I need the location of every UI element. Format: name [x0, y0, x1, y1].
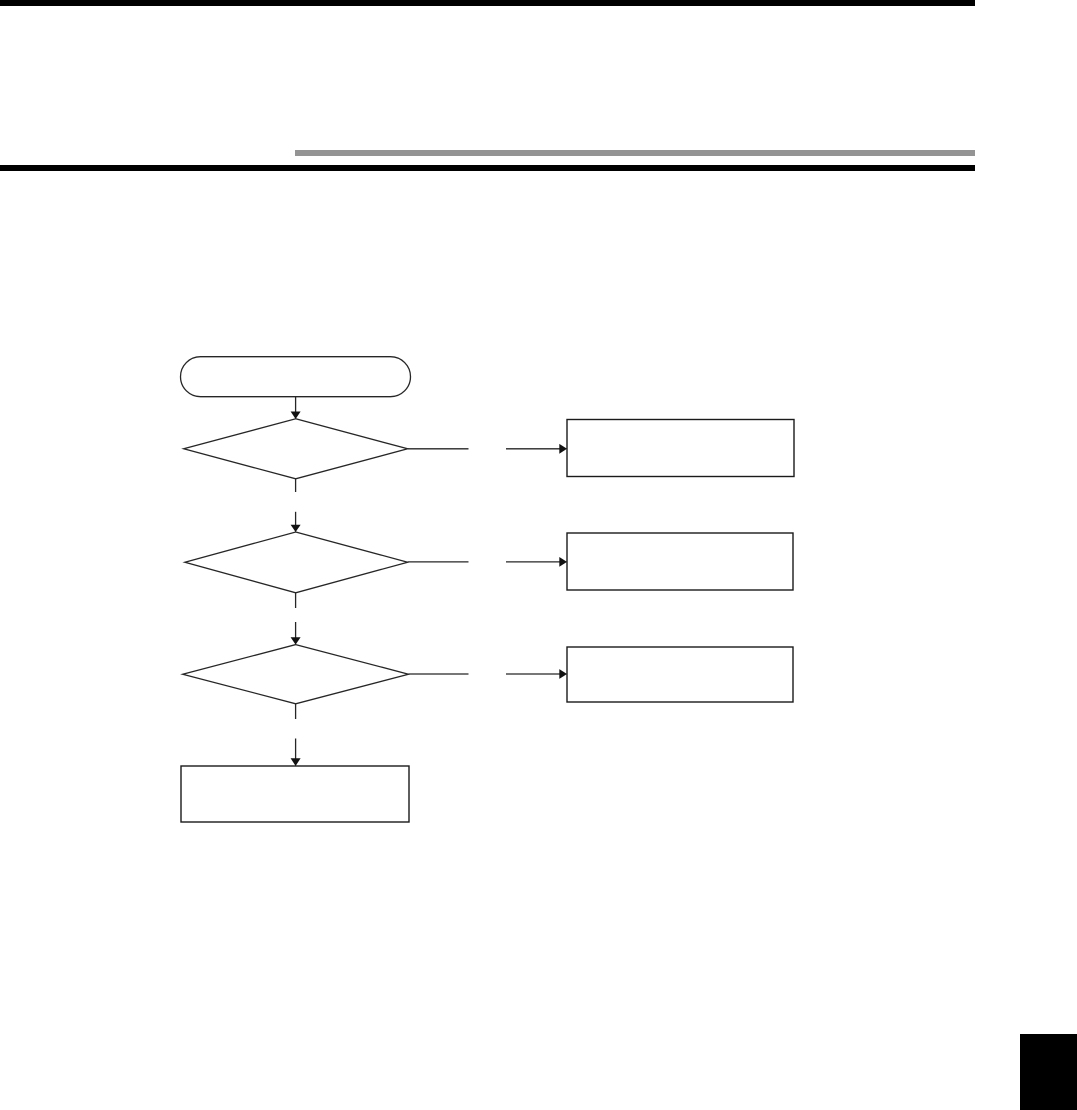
arrow terminator to decision D1 [291, 397, 301, 419]
arrow D2 to process P2 [506, 557, 567, 567]
decision D3 [183, 645, 409, 704]
arrow D3 to process P4 [291, 739, 301, 767]
process P1 [567, 420, 794, 477]
wire D3 bottom stub [295, 704, 297, 719]
terminator START [181, 357, 411, 397]
wire D3 right segment a [409, 673, 469, 675]
top header black rule [0, 0, 975, 6]
page corner tab block [1020, 1034, 1077, 1110]
process P2 [567, 533, 793, 590]
section black rule [0, 165, 975, 171]
decision D1 [184, 419, 408, 479]
arrow D1 to decision D2 [291, 512, 301, 532]
wire D2 right segment a [408, 561, 469, 563]
wire D2 bottom stub [295, 593, 297, 608]
section gray rule [295, 150, 975, 156]
arrow D3 to process P3 [506, 669, 567, 679]
wire D1 right segment a [408, 448, 469, 450]
process P3 [567, 647, 793, 702]
decision D2 [185, 532, 408, 593]
arrow D2 to decision D3 [291, 622, 301, 645]
wire D1 bottom stub [295, 479, 297, 492]
process P4 [181, 766, 409, 822]
arrow D1 to process P1 [506, 444, 567, 454]
